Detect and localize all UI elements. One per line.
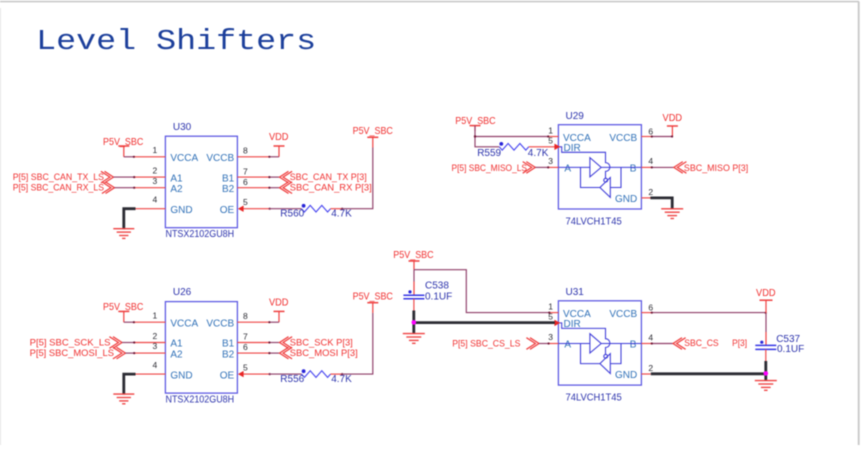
svg-text:3: 3 [548,156,553,166]
U26 pin numbers left [152,311,157,370]
svg-text:A1: A1 [170,339,183,350]
svg-text:4: 4 [152,360,157,370]
wire U29 VCCB to VDD [652,136,673,138]
U30 pin 1 stub [134,156,166,158]
svg-text:6: 6 [648,302,653,312]
wire P[5] SBC_MOSI_LS to U26 A2 [126,352,134,354]
svg-text:SBC_MISO P[3]: SBC_MISO P[3] [684,163,748,174]
IC U29 (74LVCH1T45 bus transceiver) [558,125,641,209]
svg-text:A: A [564,340,571,351]
svg-text:R559: R559 [477,148,501,159]
U26 pin 6 stub [237,352,269,354]
off-page connector P[5] SBC_MOSI_LS [113,347,122,359]
U31 pin 1 stub [548,312,558,314]
junction dot at C537 stem [765,312,767,314]
power symbol VDD at U26 pin 8 [269,297,289,322]
junction dot U26 pin 8 [268,321,270,323]
svg-text:A2: A2 [170,184,183,195]
svg-text:SBC_CS: SBC_CS [684,338,719,349]
wire R556 to P5V_SBC [342,313,373,374]
junction dot U26 pin 5 [269,373,271,375]
svg-text:0.1UF: 0.1UF [425,291,452,302]
frame left border [0,8,2,445]
thick ground wire below C537 [764,361,767,381]
wire P[5] SBC_CAN_RX_LS to U30 A2 [115,187,134,189]
wire U26 B2 to SBC_MOSI P[3] [269,352,280,354]
IC U31 (74LVCH1T45 bus transceiver) [558,301,641,385]
svg-text:4: 4 [152,195,157,205]
U29 DIR arrow (pin 5) [554,144,560,150]
U26 pin 7 stub [237,342,269,344]
U31 pin numbers right [648,302,653,373]
wire U30 B2 to SBC_CAN_RX P[3] [269,187,280,189]
svg-text:VDD: VDD [269,297,289,308]
U30 pin numbers right [243,146,248,208]
svg-text:P[5] SBC_SCK_LS: P[5] SBC_SCK_LS [30,337,111,348]
junction dot U29 pin 4 wire [651,166,653,168]
power symbol P5V_SBC at C538 [393,250,433,270]
off-page connector SBC_CAN_RX P[3] [280,182,289,194]
U31 pin 4 stub [641,343,651,345]
svg-text:VCCB: VCCB [609,309,637,320]
junction dot U30 pin 7 [268,176,270,178]
U31 pin 3 stub [548,343,558,345]
svg-text:A: A [564,164,571,175]
U30 pin 4 stub [134,208,166,210]
ground symbol at U29 pin 2 [661,208,683,210]
power symbol P5V_SBC at U26 pin 1 [103,302,143,322]
svg-text:7: 7 [243,332,248,342]
IC U30 (NTSX2102GU8H level shifter) [165,136,237,228]
U30 pin 5 stub [242,208,269,210]
wire VDD down to C537 [765,313,767,332]
power symbol P5V_SBC at U30 pin 1 [103,137,143,157]
U29 pin 1 stub [548,136,558,138]
R556 right stub [331,373,342,375]
svg-text:6: 6 [648,126,653,136]
junction dot U26 pin 1 [133,321,135,323]
capacitor C538 [403,290,424,299]
svg-text:U29: U29 [566,111,585,122]
junction dot R560 right [341,208,343,210]
C537 top stub [765,332,767,345]
power symbol P5V_SBC at R560 [353,126,393,148]
svg-text:3: 3 [548,332,553,342]
power symbol VDD at U30 pin 8 [269,132,289,157]
svg-text:OE: OE [220,205,235,216]
svg-text:2: 2 [152,166,157,176]
wire P[5] SBC_CAN_TX_LS to U30 A1 [114,176,134,178]
U30 pin numbers left [152,145,157,204]
power symbol VDD at C537 [756,288,776,313]
svg-text:U26: U26 [173,287,192,298]
off-page connector P[5] SBC_CAN_RX_LS [102,182,111,194]
svg-text:2: 2 [152,331,157,341]
svg-text:P[5] SBC_CS_LS: P[5] SBC_CS_LS [452,339,520,350]
svg-text:4.7K: 4.7K [331,209,352,220]
wire U31 B to SBC_CS [652,343,674,345]
junction C537/U31 GND (magenta) [764,371,769,376]
svg-text:B2: B2 [222,184,235,195]
wire U26 OE to R556 [269,373,302,375]
U26 pin 3 stub [134,352,166,354]
wire U29 B to SBC_MISO [652,166,674,168]
svg-text:74LVCH1T45: 74LVCH1T45 [566,216,623,227]
U26 pin 4 stub [134,373,166,375]
resistor R556 [302,369,331,377]
U30 pin 2 stub [134,176,166,178]
svg-text:1: 1 [152,311,157,321]
svg-text:3: 3 [152,341,157,351]
junction C538/DIR (magenta) [412,320,417,325]
U30 pin 6 stub [237,187,269,189]
wire P5V_SBC to U30 VCCA [124,156,134,158]
U29 pin 6 stub [641,136,651,138]
svg-text:VCCB: VCCB [609,133,637,144]
svg-text:NTSX2102GU8H: NTSX2102GU8H [166,229,235,240]
svg-text:GND: GND [170,205,192,216]
off-page connector SBC_CS_LS [526,338,535,350]
junction dot U30 pin 6 [268,187,270,189]
svg-text:P[3]: P[3] [732,338,747,349]
svg-text:P[5] SBC_MISO_LS: P[5] SBC_MISO_LS [452,163,528,174]
arrow at U30 OE pin [238,206,244,212]
wire SBC_MISO_LS to U29 A [535,166,548,168]
IC U26 (NTSX2102GU8H level shifter) [165,302,237,394]
U31 DIR arrow (pin 5) [554,320,560,326]
svg-text:VDD: VDD [756,288,776,299]
junction dot U30 pin 2 [133,176,135,178]
svg-text:P[5] SBC_CAN_TX_LS: P[5] SBC_CAN_TX_LS [13,172,104,183]
junction dot U30 pin 1 [133,156,135,158]
U29 pin numbers left [548,125,553,166]
off-page connector SBC_MISO [674,162,683,174]
wire U30 VCCB to VDD [269,156,279,158]
svg-text:0.1UF: 0.1UF [777,344,804,355]
off-page connector P[5] SBC_SCK_LS [109,337,118,349]
wire U26 VCCB to VDD [269,321,279,323]
svg-text:VCCB: VCCB [206,318,234,329]
U26 pin 1 stub [134,321,166,323]
svg-text:3: 3 [152,176,157,186]
junction dot U30 pin 5 [269,208,271,210]
wire P5V_SBC to U29 pin 1 [475,136,548,138]
junction dot U29 pin 1 wire [547,135,549,137]
svg-text:7: 7 [243,166,248,176]
junction dot U31 pin 6 wire [651,312,653,314]
ground wire at U26 pin 4 (thick) [124,374,136,395]
ground symbol at C538 [403,333,425,335]
thick ground wire U31 pin 2 to C537 ground [651,372,767,375]
svg-text:VCCB: VCCB [206,153,234,164]
junction dot U29 pin 6 wire [651,135,653,137]
U31 pin numbers left [548,302,553,343]
svg-text:B1: B1 [222,173,235,184]
R560 right stub [331,208,342,210]
U29 pin 3 stub [548,166,558,168]
C538 top stub [413,282,415,296]
U30 pin 8 stub [237,156,269,158]
U26 pin 2 stub [134,342,166,344]
svg-text:B: B [630,340,637,351]
resistor R560 [302,204,331,212]
wire P5V_SBC to U31 VCCA [414,270,550,313]
U31 pin 6 stub [641,312,651,314]
off-page connector SBC_CS [673,338,682,350]
junction dot R556 right [341,373,343,375]
svg-text:4: 4 [648,332,653,342]
svg-text:P[5] SBC_MOSI_LS: P[5] SBC_MOSI_LS [30,348,114,359]
junction dot U26 pin 3 [133,352,135,354]
junction dot U30 pin 8 [268,156,270,158]
resistor R559 [499,142,529,150]
wire U26 B1 to SBC_SCK P[3] [269,342,280,344]
svg-text:5: 5 [243,197,248,207]
frame top border [0,1,859,3]
svg-text:P5V_SBC: P5V_SBC [393,250,433,261]
ground symbol at C537 [755,380,777,382]
svg-text:SBC_MOSI P[3]: SBC_MOSI P[3] [290,348,358,359]
frame right border [858,2,860,445]
wire P[5] SBC_SCK_LS to U26 A1 [122,342,134,344]
junction dot U31 pin 4 wire [651,342,653,344]
svg-text:GND: GND [615,370,637,381]
svg-text:P[5] SBC_CAN_RX_LS: P[5] SBC_CAN_RX_LS [13,183,104,194]
thick ground wire below C538 [412,311,415,334]
U29 pin 4 stub [641,166,651,168]
svg-text:2: 2 [648,187,653,197]
ground wire at U30 pin 4 (thick) [124,209,136,230]
U26 pin numbers right [243,311,248,373]
U31 internal buffers [558,323,641,374]
svg-text:GND: GND [615,194,637,205]
svg-text:VDD: VDD [269,132,289,143]
ground symbol at U26 pin 4 [113,393,134,395]
svg-text:OE: OE [220,370,235,381]
junction dot U26 pin 2 [133,341,135,343]
svg-text:P5V_SBC: P5V_SBC [353,126,393,137]
svg-text:B1: B1 [222,339,235,350]
junction dot U29 pin 3 wire [547,166,549,168]
svg-text:U31: U31 [566,287,585,298]
junction dot U31 pin 1 wire [548,312,550,314]
wire R560 to P5V_SBC [342,148,373,209]
U30 pin 7 stub [237,176,269,178]
capacitor C537 [755,341,776,350]
svg-text:SBC_SCK P[3]: SBC_SCK P[3] [290,337,353,348]
svg-text:8: 8 [243,311,248,321]
arrow at U26 OE pin [238,371,244,377]
C538 lower stub [413,299,415,311]
svg-text:1: 1 [152,145,157,155]
svg-text:1: 1 [548,125,553,135]
off-page connector SBC_CAN_TX P[3] [280,171,289,183]
svg-text:NTSX2102GU8H: NTSX2102GU8H [166,394,235,405]
node at P5V_SBC branch U29 [474,135,476,137]
svg-text:A2: A2 [170,349,183,360]
ground symbol at U30 pin 4 [113,228,134,230]
off-page connector SBC_SCK P[3] [280,337,289,349]
U26 pin 8 stub [237,321,269,323]
wire U30 B1 to SBC_CAN_TX P[3] [269,176,280,178]
svg-text:SBC_CAN_RX P[3]: SBC_CAN_RX P[3] [290,183,372,194]
R559 right stub to U29 DIR [529,146,555,148]
wire P5V_SBC down to C538 [413,270,415,282]
svg-text:74LVCH1T45: 74LVCH1T45 [566,392,623,403]
junction dot U26 pin 6 [268,352,270,354]
svg-text:B: B [630,164,637,175]
svg-text:P5V_SBC: P5V_SBC [353,291,393,302]
U29 pin numbers right [648,126,653,197]
svg-text:2: 2 [648,363,653,373]
svg-text:VCCA: VCCA [170,318,198,329]
svg-text:5: 5 [243,363,248,373]
U29 internal buffers [558,147,641,198]
off-page connector SBC_MOSI P[3] [280,347,289,359]
wire U31 VCCB to VDD/C537 [652,312,767,314]
svg-text:B2: B2 [222,349,235,360]
U30 pin 3 stub [134,187,166,189]
off-page connector SBC_MISO_LS [523,162,532,174]
U31 pin 2 stub [641,373,650,375]
C537 lower stub [765,349,767,362]
power symbol P5V_SBC at U29 [455,116,495,131]
svg-text:Level Shifters: Level Shifters [36,25,316,58]
svg-text:6: 6 [243,177,248,187]
off-page connector P[5] SBC_CAN_TX_LS [101,171,110,183]
svg-text:4.7K: 4.7K [331,374,352,385]
svg-text:8: 8 [243,146,248,156]
U29 pin 2 stub [641,197,650,199]
wire P5V_SBC to U26 VCCA [124,321,134,323]
svg-text:GND: GND [170,370,192,381]
junction dot U31 pin 3 wire [548,342,550,344]
svg-text:C538: C538 [425,281,449,292]
wire U30 OE to R560 [269,208,302,210]
svg-text:R560: R560 [280,209,304,220]
svg-text:4.7K: 4.7K [528,148,549,159]
svg-text:U30: U30 [173,122,192,133]
junction dot at U29 VDD stem [671,135,673,137]
thick wire C538 ground to U31 DIR [414,321,555,324]
svg-text:4: 4 [648,156,653,166]
svg-text:1: 1 [548,302,553,312]
ground wire at U29 pin 2 (thick) [650,198,672,209]
svg-text:VCCA: VCCA [170,153,198,164]
junction dot U26 pin 7 [268,341,270,343]
svg-text:VDD: VDD [663,113,683,124]
svg-text:R556: R556 [280,374,304,385]
U26 pin 5 stub [242,373,269,375]
wire P5V_SBC down to U29 VCCA / R559 [475,126,499,147]
junction dot U30 pin 3 [133,187,135,189]
power symbol VDD at U29 [663,113,683,136]
svg-text:A1: A1 [170,173,183,184]
svg-text:SBC_CAN_TX P[3]: SBC_CAN_TX P[3] [290,172,367,183]
wire SBC_CS_LS to U31 A [539,343,548,345]
svg-text:6: 6 [243,342,248,352]
power symbol P5V_SBC at R556 [353,291,393,313]
